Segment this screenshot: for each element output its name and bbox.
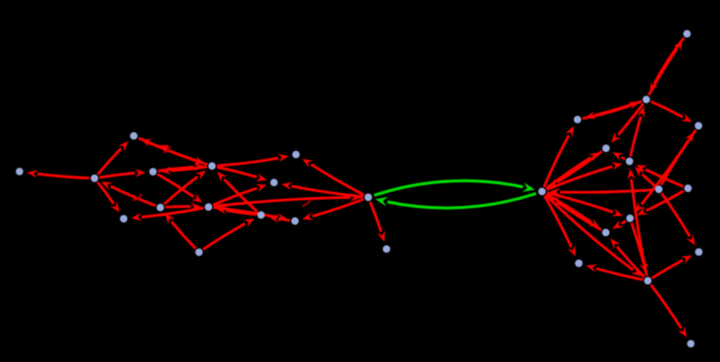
- node L8: [205, 203, 213, 211]
- edge L8->L6: [213, 184, 267, 205]
- edge R8->R9: [637, 191, 684, 215]
- edge R13->R14: [651, 285, 687, 338]
- edge L10->L4: [217, 172, 257, 212]
- edge L4->L5: [217, 154, 289, 166]
- edge L1->L0: [27, 170, 90, 178]
- edge L3->L4: [158, 163, 205, 171]
- edge H2->R13: [546, 195, 642, 276]
- node R14: [687, 340, 695, 348]
- node R4: [695, 122, 703, 130]
- edge L2->L4: [138, 138, 205, 164]
- node L3: [149, 168, 157, 176]
- edge L8->L11: [214, 208, 288, 222]
- edge L8->H1: [214, 193, 361, 206]
- edge R9->R10: [612, 220, 625, 229]
- node R8: [684, 185, 692, 193]
- edge H1->L6: [281, 182, 363, 197]
- node L4: [208, 162, 216, 170]
- edge H1->B1: [370, 202, 385, 242]
- node R11: [695, 248, 703, 256]
- edge H2->R6: [547, 163, 623, 190]
- node H1: [365, 194, 373, 202]
- edge R7->R11: [662, 193, 695, 245]
- node R3: [574, 116, 582, 124]
- node L9: [120, 215, 128, 223]
- node L1: [91, 175, 99, 183]
- edge L11->L10: [268, 214, 290, 222]
- edge H1->L5: [302, 159, 364, 195]
- edge R7->R6: [635, 167, 655, 186]
- edge H2->R5: [546, 152, 600, 188]
- edge H2->R12: [545, 196, 576, 257]
- small dark-red curl artifact on L4-L2 edge: [164, 147, 171, 153]
- node R1: [683, 30, 691, 38]
- node R5: [602, 145, 610, 153]
- edge R6->R5: [612, 152, 625, 161]
- extra arrowhead artifact on L4-L2 edge: [158, 145, 169, 152]
- edge L12->L10: [203, 219, 254, 250]
- node B1: [383, 245, 391, 253]
- edge R3->R2: [582, 102, 639, 119]
- node L2: [130, 132, 138, 140]
- node R2: [643, 96, 651, 104]
- node R6: [626, 158, 634, 166]
- edge R13->R6: [627, 169, 647, 276]
- edge L3->L8: [157, 174, 202, 203]
- edge L1->L2: [98, 141, 129, 174]
- node L12: [195, 248, 203, 256]
- edge R8->R6: [636, 165, 683, 187]
- edge R10->H2: [548, 196, 601, 230]
- edge L12->L7: [165, 213, 196, 248]
- node R13: [644, 277, 652, 285]
- node L6: [270, 179, 278, 187]
- edge H2->R9: [547, 193, 623, 217]
- edge L7->L4: [164, 170, 206, 204]
- edge H2->R3: [544, 126, 574, 187]
- node L11: [291, 217, 299, 225]
- edge R2->R3: [585, 101, 642, 119]
- node R12: [575, 260, 583, 268]
- small dark-red dash artifact on L8-H1 edge: [303, 201, 311, 207]
- green edge H1->H2: [374, 181, 535, 195]
- edge R13->R11: [652, 255, 692, 278]
- edge H1->L11: [302, 199, 363, 220]
- node R10: [602, 229, 610, 237]
- edge L7->L8: [165, 203, 201, 211]
- edge L10->L8: [216, 206, 256, 214]
- edge L4->L2: [141, 139, 208, 165]
- edge R9->R13: [632, 223, 648, 273]
- edge R2->R5: [611, 104, 643, 143]
- node L5: [292, 151, 300, 159]
- node L10: [257, 211, 265, 219]
- edge L1->L3: [99, 169, 145, 178]
- small dark-red curl artifact on L7-L1 edge: [133, 194, 142, 200]
- edge R13->R10: [610, 238, 644, 277]
- green edge H2->H1: [375, 194, 536, 208]
- node R7: [655, 186, 663, 194]
- node L0: [16, 168, 24, 176]
- edge R2->R1: [649, 40, 683, 95]
- edge L4->L3: [161, 167, 208, 175]
- edge R7->R4: [661, 132, 694, 185]
- edge R4->R9: [635, 130, 696, 213]
- node H2: [538, 188, 546, 196]
- edge R13->R12: [586, 264, 643, 279]
- edge R2->R4: [651, 102, 692, 123]
- edge R1->R2: [650, 38, 684, 93]
- node R9: [626, 215, 634, 223]
- edge R5->H2: [548, 151, 602, 187]
- edge H2->R10: [546, 194, 599, 228]
- edge R7->H2: [550, 188, 654, 196]
- edge R6->R2: [631, 107, 645, 157]
- edge L8->L9: [131, 208, 203, 221]
- node L7: [157, 204, 165, 212]
- edge L7->L1: [101, 182, 155, 206]
- edge L1->L9: [98, 182, 120, 212]
- edge L4->L6: [217, 167, 267, 181]
